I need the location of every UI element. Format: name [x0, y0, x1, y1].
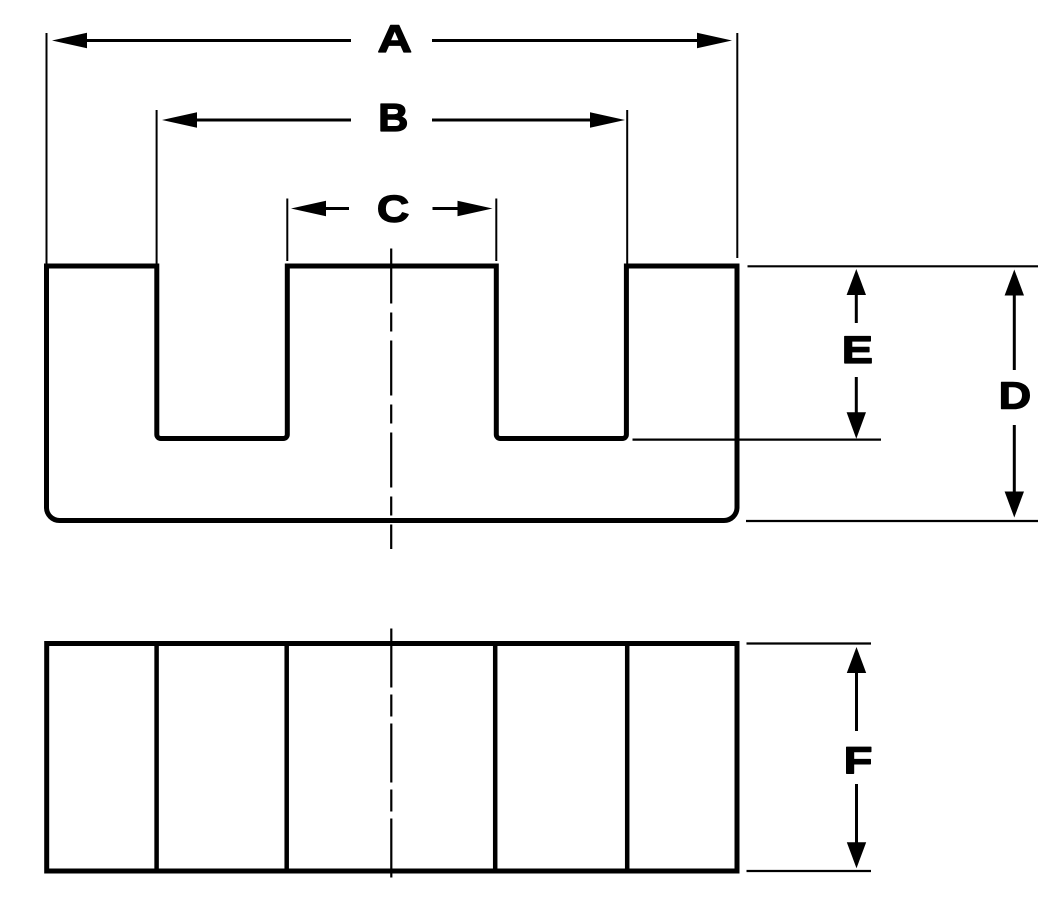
dimension E line upper segment [855, 294, 858, 323]
dimension B extension line right [626, 110, 628, 264]
dimension A line left segment [85, 39, 351, 42]
dimension D arrowhead top (points up) [1005, 270, 1024, 296]
bottom view rectangle [47, 644, 737, 872]
dimension C tail line right [433, 207, 459, 210]
label A [379, 26, 411, 52]
dimension D arrowhead bottom (points down) [1005, 492, 1024, 518]
dimension C extension line left [286, 199, 288, 262]
E-core body outline (top view) [47, 266, 738, 521]
top extension line for E and D [748, 265, 1039, 267]
dimension E arrowhead bottom (points down) [847, 412, 866, 438]
label F [847, 747, 871, 773]
centerline (top view) [390, 249, 392, 550]
dimension F line lower segment [855, 784, 858, 843]
dimension D line upper segment [1013, 295, 1016, 371]
dimension E line lower segment [855, 377, 858, 413]
label B [381, 104, 406, 131]
dimension B extension line left [156, 110, 158, 264]
label E [845, 337, 871, 363]
dimension C arrowhead right (points right) [458, 201, 493, 216]
divider line 3 (bottom view) [493, 644, 498, 872]
dimension E arrowhead top (points up) [847, 269, 866, 295]
dimension B line left segment [195, 119, 351, 122]
dimension F line upper segment [855, 672, 858, 731]
divider line 1 (bottom view) [154, 644, 159, 872]
dimension A extension line right [736, 33, 738, 258]
dimension A extension line left [46, 33, 48, 264]
dimension B arrowhead right [590, 112, 625, 127]
dimension A line right segment [432, 39, 699, 42]
F top extension line [747, 642, 872, 644]
slot-bottom extension line for E [633, 439, 882, 441]
dimension C tail line left [326, 207, 349, 210]
dimension A arrowhead right [697, 33, 732, 48]
divider line 2 (bottom view) [284, 644, 289, 872]
dimension F arrowhead bottom (points down) [847, 842, 866, 868]
centerline (bottom view) [390, 629, 392, 879]
F bottom extension line [747, 870, 872, 872]
dimension B arrowhead left [162, 112, 197, 127]
dimension C arrowhead left (points left) [291, 201, 326, 216]
dimension A arrowhead left [52, 33, 87, 48]
label C [379, 195, 408, 222]
label D [1002, 382, 1030, 408]
divider line 4 (bottom view) [625, 644, 630, 872]
bottom extension line for D [746, 520, 1038, 522]
dimension F arrowhead top (points up) [847, 647, 866, 673]
dimension D line lower segment [1013, 425, 1016, 493]
dimension B line right segment [432, 119, 591, 122]
dimension C extension line right [495, 199, 497, 262]
